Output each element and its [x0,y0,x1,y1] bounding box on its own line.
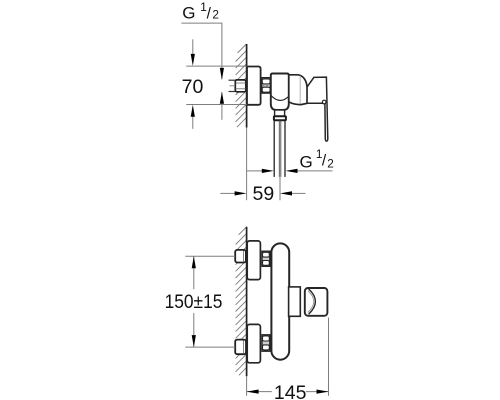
cartridge highlight line [299,76,301,104]
dimension 145: dimension line and arrows [247,391,272,393]
svg-text:145: 145 [274,382,307,400]
svg-text:G: G [182,4,195,23]
arrow up to stub bottom [221,92,223,120]
wall hatching (bottom view) [236,227,247,375]
svg-text:59: 59 [253,183,275,205]
connection nut (side view) [262,78,271,93]
dimension 70: lower arrow [192,116,194,129]
label underline and leader [181,23,222,79]
dimension 70: upper arrow [192,39,194,55]
hex nut on supply (side view) [235,80,246,92]
top connection nut (front view) [262,251,270,266]
wall face extension line down to 59 dimension [246,128,248,201]
svg-text:2: 2 [327,157,334,171]
top escutcheon (front view) [247,241,260,280]
outlet pipe inner bore lines [278,120,280,176]
supply pipe stub in wall [229,79,236,81]
svg-text:70: 70 [182,76,204,98]
escutcheon (side view) [247,67,261,105]
mixer body capsule (front view) [271,243,289,359]
dimension 59 [220,192,235,194]
svg-text:/: / [322,153,327,170]
bottom escutcheon (front view) [247,324,260,362]
handle stem (front view) [289,287,301,316]
wall hatching (top view) [236,44,247,127]
handle cap (front view) [305,288,328,316]
cartridge housing (side view) [289,75,307,105]
handle cap face arcs [309,289,316,314]
dimension 70: extension lines [186,65,246,67]
bottom connection nut (front view) [262,335,270,351]
outlet pipe centerline extension [279,177,281,200]
body lower cap arc [271,95,289,100]
lever handle wedge and blade (side view) [307,77,328,141]
label G 1/2 (top, inlet) [182,0,219,23]
dimension 145: extension line at handle tip [328,318,330,396]
outlet pipe walls [273,120,275,176]
arrow down to stub top [220,68,224,80]
label G 1/2 (outlet, bottom right) [300,147,334,171]
wall extension down to 145 dimension [246,376,248,396]
top hex nut (front view) [235,250,246,263]
svg-text:2: 2 [212,8,219,22]
outlet neck [275,110,285,116]
wall face line (bottom view) [246,227,248,376]
dimension 150±15: extension lines [185,255,235,257]
wall face line (top view) [246,44,248,128]
outlet flange (bold) [274,116,286,120]
mixer body (side view) [271,74,289,111]
svg-text:150±15: 150±15 [165,291,223,313]
bottom hex nut (front view) [235,340,246,355]
outlet G1/2 leader arrows [247,170,263,172]
dimension 150±15: dimension line and arrows [193,256,195,289]
svg-text:/: / [207,6,212,23]
lever pivot dot [322,100,326,104]
svg-text:G: G [300,152,313,171]
supply centerline (dash-dot) [230,85,251,87]
